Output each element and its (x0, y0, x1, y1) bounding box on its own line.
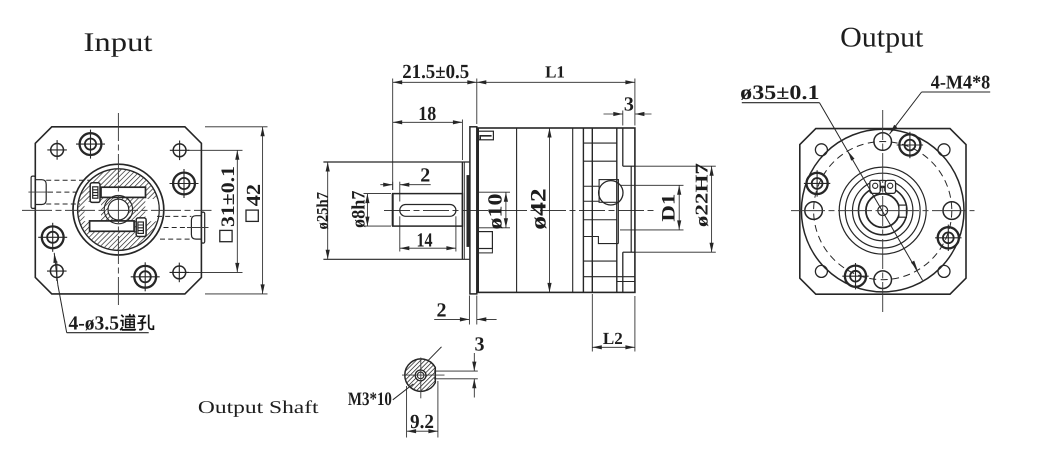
input view horizontal centerline (22, 209, 212, 211)
upper planet gear bar (101, 187, 146, 197)
flange body circle (801, 129, 964, 292)
svg-text:Output Shaft: Output Shaft (198, 397, 319, 417)
dimension L2 (591, 294, 593, 352)
svg-text:3: 3 (624, 94, 634, 116)
gear housing inner circle (78, 169, 160, 251)
boss 25 outline (323, 161, 469, 163)
right side tab (201, 212, 204, 243)
output shaft circle (866, 194, 900, 228)
gearbox body outline (478, 128, 635, 292)
white wedge right of bore (145, 199, 161, 221)
left hidden dashed lines (46, 179, 90, 181)
svg-text:3: 3 (475, 334, 485, 356)
svg-text:L2: L2 (603, 329, 623, 348)
svg-text:Input: Input (84, 27, 154, 57)
left tab centerline (28, 191, 48, 193)
lower planet gear bar (90, 221, 135, 231)
svg-text:Output: Output (840, 23, 923, 54)
keyway notch right (899, 205, 907, 217)
svg-text:31±0.1: 31±0.1 (218, 166, 239, 227)
svg-text:ø42: ø42 (525, 188, 550, 230)
gear housing outer circle (73, 164, 164, 255)
dimension 31+-0.1 line (236, 150, 238, 272)
retaining ring outer (859, 186, 907, 234)
svg-text:9.2: 9.2 (410, 411, 434, 433)
svg-text:14: 14 (417, 230, 433, 252)
dimension o42 (549, 128, 551, 292)
output view horizontal centerline (791, 210, 975, 212)
dimension 3 top (622, 111, 624, 126)
M4 tapped holes (874, 133, 892, 151)
between ears notch (881, 188, 885, 191)
svg-text:ø25h7: ø25h7 (314, 192, 331, 230)
clip detail bottom-left (478, 232, 492, 249)
counterbore holes with crosshairs (938, 227, 959, 248)
front mounting plate (470, 127, 477, 294)
dimension 31+-0.1 extension lines (188, 149, 243, 151)
svg-text:2: 2 (437, 299, 447, 321)
dimension 42 line (262, 127, 264, 294)
svg-text:4-ø3.5: 4-ø3.5 (69, 312, 120, 334)
planet bore arc circle (104, 195, 132, 223)
dimension 2 keyway offset (392, 182, 394, 190)
output view vertical centerline (882, 110, 884, 315)
svg-text:M3*10: M3*10 (348, 389, 392, 410)
retaining ring ears (870, 180, 880, 193)
label underline (67, 332, 149, 334)
input flange square outline with chamfered corners (35, 127, 201, 294)
dimension D1 (620, 184, 684, 186)
leader line to hole (58, 285, 67, 333)
white wedge left of bore (85, 202, 102, 221)
top-left screw boss (90, 183, 100, 203)
right tab centerline (187, 227, 209, 229)
dimension 18 shaft length (461, 120, 463, 161)
gear section hatching (78, 169, 161, 249)
corner through holes (815, 144, 827, 156)
svg-text:ø8h7: ø8h7 (348, 190, 369, 228)
bearing ball (599, 181, 623, 205)
left side tab (31, 176, 35, 208)
inner horizontal lines (583, 185, 599, 187)
output shaft section circle with flat (405, 359, 436, 391)
bearing ball housing (599, 180, 618, 203)
svg-text:42: 42 (243, 184, 265, 206)
dimension o22H7 (635, 165, 716, 167)
dimension 21.5 extension lines (392, 79, 394, 191)
detail crosshair (420, 358, 422, 399)
bolt circle dashed (814, 142, 952, 280)
side view horizontal centerline (384, 210, 656, 212)
dimension 2 plate thickness (468, 296, 470, 325)
input view vertical centerline (117, 113, 119, 307)
body internal joint lines (516, 128, 518, 292)
keyway slot (400, 205, 456, 217)
dimension 9.2 (406, 386, 408, 438)
square symbol for 42 (246, 210, 258, 221)
clip detail top-left (478, 131, 493, 140)
svg-text:21.5±0.5: 21.5±0.5 (402, 61, 469, 83)
dimension o8h7 (364, 193, 392, 195)
svg-text:ø35±0.1: ø35±0.1 (740, 82, 819, 104)
output section step lines (583, 142, 616, 144)
dimension 42 extension lines (205, 126, 268, 128)
svg-text:D1: D1 (659, 194, 680, 222)
sun gear bore circle (108, 199, 129, 220)
dimension L1 (634, 79, 636, 126)
dimension 3 flat (434, 370, 478, 372)
input shaft outline (393, 194, 463, 227)
corner mounting hole top-left (4-3.5) (51, 144, 64, 157)
counterbore screw holes (80, 133, 102, 155)
output recess 22H7 (622, 128, 624, 166)
square symbol for 31 (220, 230, 232, 241)
bottom-right screw boss (136, 218, 146, 237)
svg-text:L1: L1 (545, 63, 565, 82)
svg-text:2: 2 (420, 165, 430, 187)
lower step detail (583, 237, 618, 244)
diagonal tick (428, 347, 442, 361)
dimension 21.5+-0.5 (393, 81, 477, 83)
pilot circles (839, 167, 926, 254)
center hole (878, 206, 888, 216)
shaft collar dark ring (467, 176, 470, 247)
dimension 14 keyway length (399, 216, 401, 251)
output flange square outline with chamfered corners (800, 129, 966, 295)
svg-text:18: 18 (418, 103, 436, 125)
svg-text:ø10: ø10 (485, 194, 507, 230)
right hidden dashed lines (157, 215, 191, 217)
svg-text:4-M4*8: 4-M4*8 (931, 73, 991, 94)
svg-text:ø22H7: ø22H7 (692, 163, 712, 227)
hand-drawn CJK char tong (120, 314, 135, 330)
dimension o10 (479, 191, 510, 193)
M3 tapped hole (415, 370, 426, 381)
dimension o25h7 (327, 162, 329, 259)
hand-drawn CJK char kong (137, 315, 153, 330)
